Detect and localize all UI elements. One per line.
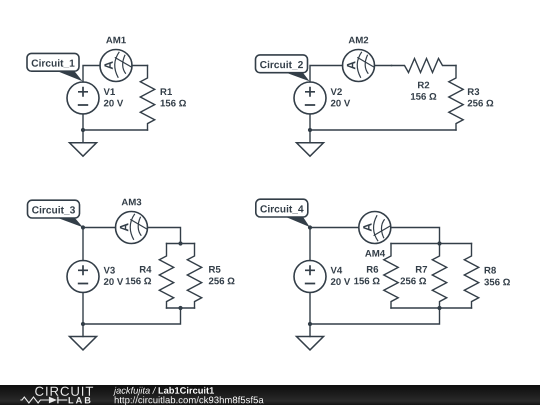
label AM2 name [349, 37, 369, 44]
ammeter AM3 [116, 212, 148, 244]
wire rail to V4 bottom [310, 308, 440, 324]
CircuitLab logo wordmark CIRCUIT [35, 387, 93, 396]
wire node to AM3 [83, 227, 116, 229]
node circuit3 bottom junction [81, 322, 85, 326]
wire rail to V3 bottom [83, 308, 181, 324]
footer author line [113, 387, 156, 396]
label R8 name [485, 267, 496, 274]
voltage source V2 [294, 82, 326, 114]
label AM4 name [365, 250, 385, 257]
label R3 value [468, 100, 494, 107]
resistor R2 [392, 59, 457, 73]
label V4 name [331, 267, 343, 274]
node rail top junction c4 [437, 241, 441, 245]
wire top rail R4 R5 [167, 243, 195, 245]
node rail top junction c3 [178, 241, 182, 245]
node circuit4 bottom junction [308, 322, 312, 326]
wire bottom rail R4 R5 [167, 307, 195, 309]
node circuit4 top junction [308, 225, 312, 229]
wire V1 bottom lead [82, 114, 84, 130]
wire node to AM4 [310, 227, 359, 229]
label R6 name [367, 266, 378, 273]
voltage source V1 [67, 82, 99, 114]
ammeter AM4 [359, 212, 391, 244]
resistor R6 [384, 244, 398, 309]
wire R3 bottom to V2 bottom [310, 129, 456, 131]
wire V4 bottom lead [309, 293, 311, 325]
label V1 name [104, 88, 115, 95]
node circuit3 top junction [81, 225, 85, 229]
label V1 value [104, 100, 123, 107]
resistor R8 [464, 244, 478, 309]
wire R1 bottom to V1 bottom [83, 129, 148, 131]
wire bottom rail R6 R7 R8 [391, 307, 472, 309]
ground GND circuit 4 [297, 337, 324, 350]
label V2 value [331, 100, 350, 107]
wire AM2 to R2 [375, 65, 392, 67]
label R8 value [484, 279, 510, 286]
wire top rail R6 R7 R8 [391, 243, 472, 245]
resistor R5 [187, 244, 201, 309]
label R1 name [161, 88, 172, 95]
net flag Circuit_2 flag [256, 55, 310, 81]
voltage source V3 [67, 261, 99, 293]
label V2 name [331, 88, 342, 95]
ground GND circuit 1 [70, 143, 97, 156]
footer url line [115, 396, 264, 405]
wire to ground 1 [82, 130, 84, 143]
net flag Circuit_4 flag [256, 199, 310, 227]
wire to ground 3 [82, 324, 84, 337]
wire V1 top to AM1 [83, 66, 100, 83]
label R7 name [416, 266, 427, 273]
wire to ground 2 [309, 130, 311, 143]
label V3 name [104, 267, 115, 274]
wire AM4 to parallel bank [391, 228, 440, 244]
wire V3 bottom lead [82, 293, 84, 325]
label V4 value [331, 278, 350, 285]
net flag Circuit_3 flag [28, 200, 83, 227]
resistor R7 [432, 244, 446, 309]
resistor R4 [159, 244, 173, 309]
label R6 value [354, 278, 379, 285]
node rail bottom junction c4 [437, 306, 441, 310]
resistor R3 [449, 66, 463, 131]
logo waveform and diode glyph [20, 397, 67, 404]
label R2 name [418, 82, 429, 89]
resistor R1 [140, 66, 154, 131]
label R4 name [140, 266, 152, 273]
voltage source V4 [294, 261, 326, 293]
label R5 value [209, 278, 235, 285]
wire AM3 to parallel pair [148, 228, 181, 244]
node circuit1 bottom junction [81, 128, 85, 132]
label R4 value [126, 278, 151, 285]
node circuit2 bottom junction [308, 128, 312, 132]
label R2 value [411, 93, 436, 100]
net flag Circuit_1 flag [27, 53, 83, 81]
ammeter AM1 [100, 50, 132, 82]
ground GND circuit 3 [70, 337, 97, 350]
wire to ground 4 [309, 324, 311, 337]
label R1 value [161, 100, 186, 107]
wire V4 top lead [309, 228, 311, 261]
ground GND circuit 2 [297, 143, 324, 156]
label R7 value [401, 278, 427, 285]
label R3 name [468, 88, 479, 95]
node rail bottom junction c3 [178, 306, 182, 310]
wire V3 top lead [82, 228, 84, 261]
label V3 value [104, 278, 123, 285]
label R5 name [209, 266, 220, 273]
label AM3 name [122, 199, 142, 206]
wire AM1 to R1 [132, 65, 148, 67]
label AM1 name [106, 37, 126, 44]
logo LAB text [69, 397, 91, 403]
wire V2 top to AM2 [310, 66, 343, 83]
wire V2 bottom lead [309, 114, 311, 130]
ammeter AM2 [343, 50, 375, 82]
